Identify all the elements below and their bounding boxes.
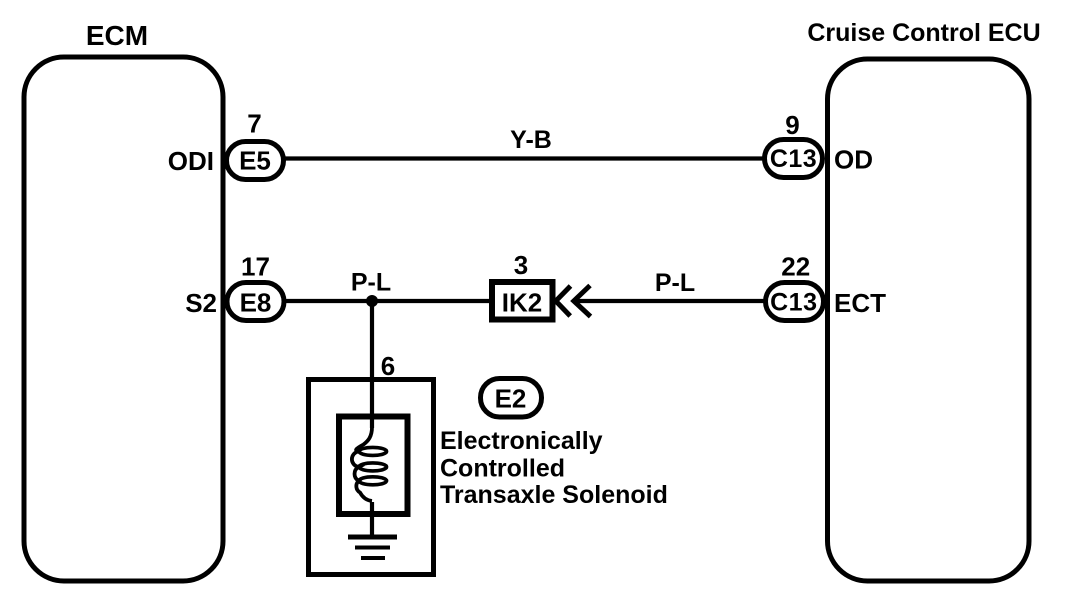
- svg-text:Controlled: Controlled: [440, 455, 565, 483]
- svg-text:IK2: IK2: [502, 288, 542, 318]
- svg-text:ODI: ODI: [168, 146, 214, 176]
- svg-text:6: 6: [381, 351, 395, 381]
- svg-text:P-L: P-L: [655, 269, 695, 297]
- svg-text:22: 22: [781, 252, 810, 282]
- svg-text:Electronically: Electronically: [440, 427, 603, 455]
- svg-text:E5: E5: [239, 146, 271, 176]
- svg-text:E2: E2: [495, 384, 527, 414]
- svg-text:S2: S2: [185, 288, 217, 318]
- svg-text:7: 7: [247, 109, 261, 139]
- svg-text:C13: C13: [770, 145, 817, 173]
- svg-text:Transaxle Solenoid: Transaxle Solenoid: [440, 481, 668, 509]
- svg-text:Cruise Control ECU: Cruise Control ECU: [807, 19, 1040, 47]
- svg-text:9: 9: [785, 110, 799, 140]
- svg-text:17: 17: [241, 252, 270, 282]
- svg-text:C13: C13: [770, 289, 817, 317]
- svg-text:ECT: ECT: [834, 288, 886, 318]
- svg-text:E8: E8: [240, 288, 272, 318]
- svg-text:OD: OD: [834, 145, 873, 175]
- svg-text:Y-B: Y-B: [510, 126, 552, 154]
- svg-text:3: 3: [514, 250, 528, 280]
- svg-text:P-L: P-L: [351, 269, 391, 297]
- svg-text:ECM: ECM: [86, 20, 148, 51]
